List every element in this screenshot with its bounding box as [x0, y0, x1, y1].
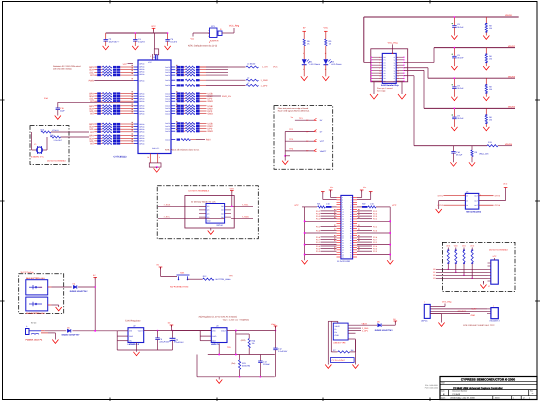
svg-text:GND: GND [208, 100, 214, 103]
svg-text:INT: INT [90, 143, 94, 146]
svg-text:2_DP1: 2_DP1 [362, 330, 369, 333]
svg-text:28: 28 [147, 156, 149, 159]
svg-text:Resistors R17-R20 GRN noted: Resistors R17-R20 GRN noted [53, 65, 80, 68]
svg-text:1: 1 [513, 397, 514, 400]
svg-text:2200uF: 2200uF [263, 363, 271, 366]
svg-text:5.0V Regulator: 5.0V Regulator [125, 319, 141, 322]
svg-text:PWD: PWD [89, 80, 95, 83]
svg-text:4: 4 [529, 397, 530, 400]
svg-text:1_SH: 1_SH [262, 66, 268, 69]
svg-text:Sheet: Sheet [495, 397, 500, 400]
svg-text:DAC0: DAC0 [165, 122, 170, 125]
svg-text:JUMPER: JUMPER [210, 40, 219, 43]
svg-text:AT Memory 93C46 / M 1.2K: AT Memory 93C46 / M 1.2K [191, 200, 216, 203]
svg-text:VCC: VCC [273, 66, 278, 69]
svg-text:J4 2x20 HDR: J4 2x20 HDR [337, 260, 350, 263]
svg-text:39.2nF: 39.2nF [457, 87, 464, 90]
svg-text:DAC0: DAC0 [165, 130, 170, 133]
svg-text:DO NOT ASSEMBLE: DO NOT ASSEMBLE [47, 160, 67, 163]
svg-text:VCC: VCC [123, 63, 128, 66]
svg-text:Vcc: Vcc [363, 186, 366, 189]
svg-text:VBUS5: VBUS5 [505, 143, 513, 146]
svg-text:(Pot): (Pot) [231, 362, 235, 365]
svg-text:BH1 BATTERY AAA: BH1 BATTERY AAA [26, 277, 45, 280]
svg-text:CYPRESS SEMICONDUCTOR © 2000: CYPRESS SEMICONDUCTOR © 2000 [461, 377, 515, 381]
svg-text:VBUS: VBUS [335, 325, 341, 328]
svg-text:Vx: Vx [291, 116, 293, 119]
svg-text:GPIO0: GPIO0 [139, 125, 144, 128]
svg-text:front edge.: front edge. [377, 90, 387, 93]
svg-text:VCC: VCC [462, 245, 467, 248]
svg-text:DAC0: DAC0 [165, 66, 170, 69]
svg-text:XTALOUT: XTALOUT [54, 139, 63, 142]
svg-text:DIODE SCHOTTKY: DIODE SCHOTTKY [375, 329, 394, 332]
svg-text:93C46: 93C46 [217, 224, 224, 227]
svg-text:VCC: VCC [320, 140, 325, 143]
svg-text:GPIO0: GPIO0 [139, 142, 144, 145]
svg-text:DAC0: DAC0 [165, 71, 170, 74]
svg-text:9: 9 [159, 156, 160, 159]
svg-text:1: 1 [208, 29, 209, 32]
svg-text:3_3V: 3_3V [472, 308, 477, 311]
svg-text:INT: INT [90, 100, 94, 103]
svg-text:VBUS2: VBUS2 [508, 45, 516, 48]
svg-text:USB B-TYPE: USB B-TYPE [333, 341, 346, 344]
svg-text:7_SCL: 7_SCL [164, 216, 171, 219]
svg-text:Rev: Rev [530, 390, 533, 393]
svg-text:PCB: 0409-4003: PCB: 0409-4003 [425, 387, 438, 390]
svg-text:DAC0: DAC0 [165, 79, 170, 82]
svg-text:INT: INT [90, 113, 94, 116]
svg-text:DAC0: DAC0 [165, 69, 170, 72]
svg-text:GND: GND [471, 314, 476, 317]
svg-text:LM340S-5.0: LM340S-5.0 [128, 343, 140, 346]
svg-text:1: 1 [150, 55, 151, 58]
svg-text:with 1K5 DNI resistor.: with 1K5 DNI resistor. [53, 68, 73, 71]
svg-text:GPIO0: GPIO0 [139, 123, 144, 126]
svg-text:GPIO0: GPIO0 [139, 95, 144, 98]
svg-text:GPIO0: GPIO0 [139, 97, 144, 100]
svg-text:CY4640 USB Universal Capture C: CY4640 USB Universal Capture Controller [453, 387, 503, 390]
svg-text:VCC: VCC [294, 204, 299, 207]
svg-text:GPIO0: GPIO0 [139, 73, 144, 76]
svg-text:DAC0: DAC0 [165, 127, 170, 130]
svg-text:Document Number: Document Number [452, 390, 467, 393]
svg-text:1M: 1M [489, 88, 492, 91]
svg-text:0.1uFd: 0.1uFd [138, 40, 145, 43]
svg-text:VCC: VCC [503, 183, 508, 186]
svg-text:1M: 1M [489, 58, 492, 61]
svg-text:HEADER 3: HEADER 3 [490, 320, 501, 323]
svg-text:VCC: VCC [230, 187, 235, 190]
svg-text:LED Green: LED Green [331, 63, 342, 66]
svg-text:GPX2: GPX2 [438, 204, 444, 207]
svg-text:1M: 1M [351, 349, 354, 352]
svg-text:LM317S: LM317S [211, 343, 219, 346]
svg-text:VCC: VCC [323, 27, 328, 30]
svg-text:VCC: VCC [446, 245, 451, 248]
svg-text:VBATT: VBATT [320, 150, 327, 153]
svg-text:VBUS4: VBUS4 [508, 106, 516, 109]
svg-text:DAC0: DAC0 [165, 110, 170, 113]
svg-text:GPX1: GPX1 [438, 195, 444, 198]
svg-text:CY4640: CY4640 [452, 393, 461, 396]
svg-text:6.00MHz CYL: 6.00MHz CYL [31, 156, 45, 159]
svg-text:**: ** [532, 392, 534, 395]
svg-text:DAC0: DAC0 [165, 100, 170, 103]
svg-text:NTK: Default reset via (1-2): NTK: Default reset via (1-2) [188, 45, 217, 48]
svg-text:GND: GND [335, 334, 340, 337]
svg-text:R22: R22 [362, 203, 365, 206]
svg-text:DAC0: DAC0 [165, 105, 170, 108]
svg-text:GPIO0: GPIO0 [139, 137, 144, 140]
svg-text:GPIO0: GPIO0 [139, 131, 144, 134]
svg-text:VCC_Reg: VCC_Reg [229, 25, 240, 28]
svg-text:INT: INT [90, 131, 94, 134]
svg-text:Date:: Date: [441, 397, 446, 400]
svg-text:VBus_Det: VBus_Det [479, 153, 489, 156]
svg-text:VCC: VCC [470, 245, 475, 248]
svg-text:GPIO0: GPIO0 [139, 107, 144, 110]
svg-text:GPIO0: GPIO0 [139, 128, 144, 131]
svg-text:DAC0: DAC0 [165, 107, 170, 110]
svg-text:VCC: VCC [151, 25, 156, 28]
svg-text:DAC0: DAC0 [165, 138, 170, 141]
svg-text:BUTTON_Wake: BUTTON_Wake [216, 278, 232, 281]
svg-text:DAC0: DAC0 [165, 74, 170, 77]
svg-text:DO NOT ASSEMBLE: DO NOT ASSEMBLE [189, 190, 210, 193]
svg-text:POWER JACK P4: POWER JACK P4 [26, 339, 43, 342]
svg-text:2.2uF/16V: 2.2uF/16V [278, 350, 288, 353]
svg-text:CY7C65113: CY7C65113 [114, 155, 128, 158]
svg-text:U3: U3 [216, 325, 218, 328]
svg-text:0.1uFd: 0.1uFd [170, 40, 177, 43]
svg-text:1_DP0: 1_DP0 [261, 84, 268, 87]
svg-text:DIODE SCHOTTKY: DIODE SCHOTTKY [70, 290, 89, 293]
svg-text:DAC0: DAC0 [165, 97, 170, 100]
svg-text:Adj Regulator (1.2V to 5.0V As: Adj Regulator (1.2V to 5.0V As In Base) [199, 315, 238, 318]
svg-text:1_DM0: 1_DM0 [261, 79, 269, 82]
svg-text:RSV: RSV [206, 139, 211, 142]
svg-text:7_SCL: 7_SCL [242, 203, 249, 206]
svg-text:SN74AHC1G04: SN74AHC1G04 [466, 210, 482, 213]
svg-text:ADJ: ADJ [212, 340, 215, 343]
svg-text:Vcc: Vcc [330, 186, 333, 189]
svg-text:GPIO0: GPIO0 [139, 105, 144, 108]
svg-text:(R23): (R23) [241, 339, 246, 342]
svg-text:BH2 BATTERY AAA: BH2 BATTERY AAA [26, 312, 45, 315]
svg-text:To CY7xxCxx: To CY7xxCxx [20, 271, 34, 274]
svg-text:39.2nF: 39.2nF [457, 26, 464, 29]
svg-text:9V DC: 9V DC [31, 322, 37, 325]
svg-text:GND: GND [129, 335, 134, 338]
svg-text:NTK: Place all resistors clos: NTK: Place all resistors close to U1 [165, 149, 200, 152]
svg-text:GPIO0: GPIO0 [139, 112, 144, 115]
svg-text:3: 3 [208, 35, 209, 38]
svg-text:GPIO0: GPIO0 [139, 135, 144, 138]
svg-text:XTALIN: XTALIN [52, 129, 59, 132]
svg-text:SW PUSHBUTTON: SW PUSHBUTTON [170, 285, 189, 288]
svg-text:GND: GND [208, 130, 214, 133]
svg-text:GPIO0: GPIO0 [139, 110, 144, 113]
svg-text:10uF/16V +: 10uF/16V + [109, 40, 121, 43]
svg-text:GPX4: GPX4 [495, 204, 501, 207]
svg-text:DAC0: DAC0 [165, 95, 170, 98]
svg-text:VCC_Reg: VCC_Reg [388, 41, 399, 44]
svg-text:2.2uF/16V: 2.2uF/16V [174, 341, 184, 344]
svg-text:CY 2X LAYOUT: CY 2X LAYOUT [332, 359, 346, 362]
svg-text:J8/P2A: J8/P2A [421, 320, 428, 323]
svg-text:NTK: DEFAULT JUMP VIA 1 TO 2: NTK: DEFAULT JUMP VIA 1 TO 2 [463, 324, 495, 327]
svg-text:PWR_EN: PWR_EN [222, 95, 231, 98]
svg-text:22pF: 22pF [60, 110, 65, 113]
svg-text:VCC: VCC [493, 255, 498, 258]
svg-text:R21: R21 [317, 203, 320, 206]
svg-text:VBUS: VBUS [362, 322, 368, 325]
svg-text:1: 1 [493, 304, 494, 307]
svg-text:INT: INT [90, 74, 94, 77]
svg-text:220uF/16V: 220uF/16V [159, 341, 169, 344]
svg-text:GPIO0: GPIO0 [139, 79, 144, 82]
svg-text:Vout = 1.25V x (1 + R24/R23): Vout = 1.25V x (1 + R24/R23) [223, 319, 250, 322]
svg-text:VCC: VCC [392, 204, 397, 207]
svg-text:DAC0: DAC0 [165, 112, 170, 115]
svg-text:LED Green: LED Green [310, 63, 321, 66]
svg-text:GPIO0: GPIO0 [139, 100, 144, 103]
svg-text:U5: U5 [466, 191, 468, 194]
svg-text:7_SDA: 7_SDA [242, 215, 249, 218]
svg-text:POL: 0409-0001: POL: 0409-0001 [425, 384, 438, 387]
svg-text:Route USB signals 90ohm differ: Route USB signals 90ohm differential. [278, 110, 310, 113]
svg-text:VBUS1: VBUS1 [505, 14, 513, 17]
svg-text:500OHM: 500OHM [242, 365, 250, 368]
svg-text:Wednesday, July 19, 2000: Wednesday, July 19, 2000 [450, 397, 475, 400]
svg-text:DO NOT ASSEMBLE: DO NOT ASSEMBLE [489, 248, 509, 251]
svg-text:DIODE SCHOTTKY: DIODE SCHOTTKY [62, 333, 81, 336]
svg-text:39.2uF: 39.2uF [456, 153, 463, 156]
svg-text:1M: 1M [489, 27, 492, 30]
svg-text:7_SDA: 7_SDA [164, 204, 171, 207]
svg-text:2x10 Header Rcp: 2x10 Header Rcp [381, 84, 399, 87]
svg-text:GPIO0: GPIO0 [139, 62, 144, 65]
svg-text:VBUS3: VBUS3 [508, 75, 516, 78]
svg-text:1M: 1M [489, 118, 492, 121]
svg-text:DAC0: DAC0 [165, 84, 170, 87]
svg-text:VCC: VCC [454, 245, 459, 248]
svg-text:1%: 1% [252, 342, 255, 345]
svg-text:GPIO0: GPIO0 [139, 140, 144, 143]
svg-text:GND: GND [208, 113, 214, 116]
svg-text:1: 1 [424, 300, 425, 303]
svg-text:VCC_Reg: VCC_Reg [442, 301, 452, 304]
svg-text:39.2nF: 39.2nF [457, 117, 464, 120]
svg-text:GND: GND [212, 335, 217, 338]
svg-text:GPX3: GPX3 [495, 195, 501, 198]
svg-text:L1 BEAD: L1 BEAD [247, 63, 256, 66]
svg-text:39.2nF: 39.2nF [457, 56, 464, 59]
svg-text:DAC0: DAC0 [165, 125, 170, 128]
svg-text:GND XTL: GND XTL [152, 147, 159, 150]
svg-text:U2: U2 [133, 325, 135, 328]
